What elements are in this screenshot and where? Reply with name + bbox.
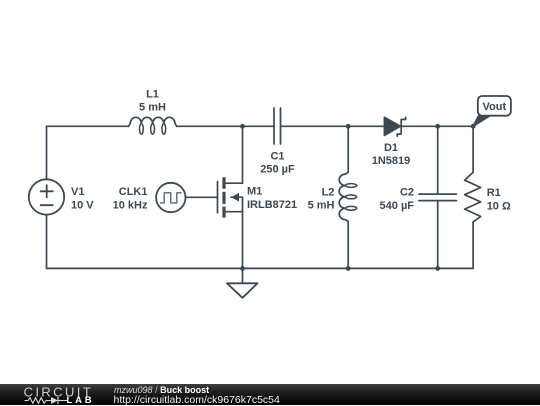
svg-text:540 µF: 540 µF bbox=[380, 200, 415, 212]
wire L1 to drain junction bbox=[177, 125, 274, 127]
wire M1 source to bottom rail junction bbox=[242, 212, 244, 269]
capacitor C2 bbox=[419, 194, 456, 201]
wire node Vout to R1 bbox=[472, 126, 474, 172]
svg-text:Vout: Vout bbox=[482, 101, 506, 113]
svg-text:IRLB8721: IRLB8721 bbox=[247, 199, 297, 211]
svg-text:CLK1: CLK1 bbox=[119, 186, 148, 198]
transistor M1 (NMOS) bbox=[218, 177, 243, 217]
svg-text:R1: R1 bbox=[487, 187, 501, 199]
wire C1 to L2 top junction bbox=[281, 125, 349, 127]
inductor L1 bbox=[129, 117, 177, 134]
junction bottom rail / C2 bbox=[435, 266, 440, 271]
wire V1 minus terminal to bottom rail bbox=[46, 215, 48, 269]
junction bottom rail / L2 bbox=[346, 266, 351, 271]
svg-text:10 Ω: 10 Ω bbox=[487, 200, 511, 212]
svg-text:5 mH: 5 mH bbox=[139, 102, 166, 114]
wire top rail junction to L2 bbox=[347, 126, 349, 172]
capacitor C1 bbox=[274, 108, 281, 144]
diode D1 (Schottky) bbox=[384, 117, 405, 136]
wire top rail V1 to L1 bbox=[47, 125, 129, 127]
wire L2 top junction to D1 anode bbox=[348, 125, 384, 127]
wire L2 to bottom rail junction bbox=[347, 222, 349, 269]
node Vout junction bbox=[471, 124, 476, 129]
footer URL bbox=[114, 394, 280, 406]
wire C2 top junction to node Vout bbox=[438, 125, 473, 127]
ground bbox=[227, 283, 258, 298]
footer bar bbox=[0, 384, 540, 405]
svg-text:V1: V1 bbox=[71, 186, 84, 198]
svg-text:LAB: LAB bbox=[67, 395, 95, 405]
node Vout flag bbox=[473, 96, 511, 126]
svg-text:10 V: 10 V bbox=[71, 200, 94, 212]
svg-text:10 kHz: 10 kHz bbox=[113, 200, 148, 212]
wire ground stub bbox=[242, 268, 244, 283]
wire M1 drain to top rail junction bbox=[242, 126, 244, 183]
svg-text:C1: C1 bbox=[270, 151, 284, 163]
svg-text:250 µF: 250 µF bbox=[260, 164, 295, 176]
resistor R1 bbox=[465, 172, 481, 222]
wire top rail junction to C2 bbox=[437, 126, 439, 194]
wire R1 to bottom rail bbox=[472, 222, 474, 268]
svg-text:5 mH: 5 mH bbox=[308, 200, 335, 212]
inductor L2 bbox=[339, 172, 357, 221]
svg-text:L2: L2 bbox=[322, 186, 335, 198]
wire D1 cathode to C2 top junction bbox=[401, 125, 438, 127]
CircuitLab logo bbox=[22, 385, 102, 405]
footer credit text bbox=[114, 385, 209, 395]
svg-text:1N5819: 1N5819 bbox=[372, 155, 411, 167]
junction D1 cathode / C2 bbox=[435, 124, 440, 129]
wire bottom rail bbox=[47, 267, 474, 269]
voltage source V1 bbox=[29, 179, 64, 214]
wire CLK1 to M1 gate bbox=[186, 196, 218, 198]
wire V1 plus terminal to top rail bbox=[46, 126, 48, 179]
junction L1 / C1 / M1 drain bbox=[240, 124, 245, 129]
junction bottom rail / M1 source / ground bbox=[240, 266, 245, 271]
svg-text:C2: C2 bbox=[400, 187, 414, 199]
wire C2 to bottom rail junction bbox=[437, 201, 439, 269]
svg-text:D1: D1 bbox=[384, 142, 398, 154]
svg-text:M1: M1 bbox=[247, 186, 262, 198]
clock source CLK1 bbox=[156, 183, 185, 212]
svg-text:L1: L1 bbox=[146, 89, 159, 101]
junction C1 / L2 / D1 anode bbox=[346, 124, 351, 129]
